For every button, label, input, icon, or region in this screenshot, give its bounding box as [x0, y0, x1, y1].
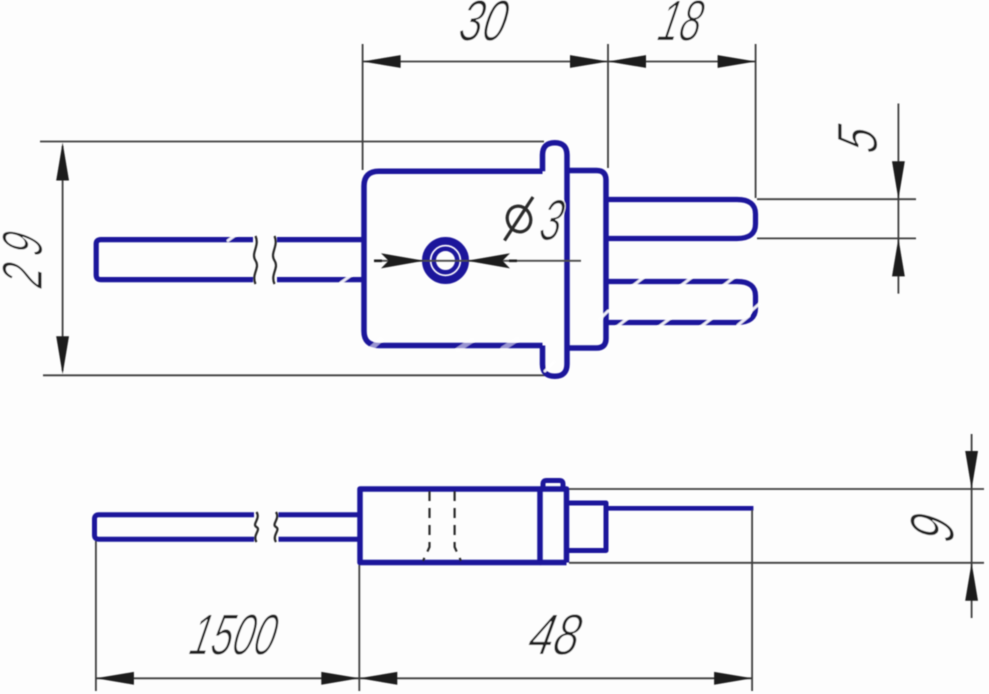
dimension label 30	[460, 0, 510, 41]
hole circle inner o3	[434, 249, 458, 273]
cable (top view) right segment	[277, 240, 363, 280]
cable break squiggle left (top view)	[254, 236, 257, 284]
dimension label 5	[838, 123, 878, 153]
bottom pin (top view)	[606, 282, 756, 323]
cable (side view) left segment	[95, 515, 255, 540]
dimension 29 top extension line	[40, 141, 544, 143]
cable break squiggle left (side view)	[255, 512, 258, 542]
dimension 1500/48 extension lines	[96, 510, 752, 691]
pin edge line (side view)	[606, 506, 753, 511]
dimension 1500/48 line with arrows	[96, 672, 752, 685]
leader line through hole	[374, 260, 581, 262]
dimension 30/18 line with arrows	[363, 55, 756, 68]
arrow pointing right at hole	[374, 253, 424, 268]
label o3	[504, 197, 566, 241]
latch bump (side view)	[543, 481, 563, 490]
top pin (top view)	[606, 200, 756, 239]
dimension 5 extension lines	[757, 199, 916, 238]
dimension 9 line with outside arrows	[965, 434, 978, 618]
plug body (top view)	[364, 171, 543, 345]
hidden hole dashed lines (side view)	[423, 491, 461, 561]
plug body (side view)	[360, 489, 540, 563]
dimension 9 extension lines	[569, 489, 984, 563]
dimension label 1500	[188, 614, 278, 655]
dimension 5 line with outside arrows	[892, 104, 905, 294]
hole circle outer (top view)	[426, 241, 465, 280]
watermark artifact slashes	[228, 234, 759, 372]
dimension 29 line with arrows	[56, 143, 69, 375]
dimension 30/18 extension lines	[363, 44, 756, 198]
cable (side view) right segment	[279, 515, 361, 540]
cable (top view) left segment	[96, 240, 253, 280]
front plate (top view)	[567, 171, 606, 349]
dimension label 9	[910, 514, 954, 542]
cable break squiggle right (side view)	[275, 512, 278, 542]
flange (top view)	[543, 143, 568, 377]
front step (side view)	[567, 503, 607, 551]
cable break squiggle right (top view)	[273, 236, 276, 284]
dimension 29 bottom extension line	[43, 374, 545, 376]
arrow pointing left at hole	[467, 253, 517, 268]
dimension label 48	[528, 614, 583, 655]
flange (side view)	[540, 489, 567, 563]
dimension label 29	[2, 231, 42, 289]
dimension label 18	[657, 0, 705, 41]
